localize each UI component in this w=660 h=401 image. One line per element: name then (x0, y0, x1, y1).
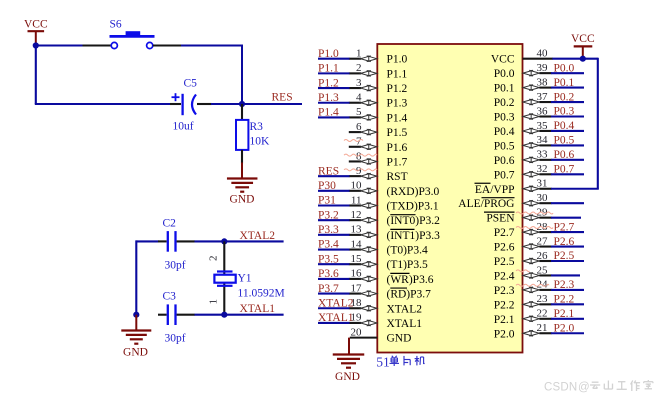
svg-text:CSDN: CSDN (544, 382, 577, 394)
svg-text:RES: RES (272, 92, 293, 104)
net label P0.5 (554, 135, 575, 147)
pin name (RD)P3.7 (387, 288, 432, 301)
pin 1 (P1.0) (349, 48, 377, 62)
pin name P0.2 (494, 97, 515, 109)
net label RES (272, 92, 293, 104)
svg-text:P0.5: P0.5 (554, 135, 575, 147)
svg-text:15: 15 (351, 253, 363, 265)
pin 35 (P0.4) (523, 120, 552, 134)
svg-text:P0.0: P0.0 (494, 68, 515, 80)
net label RES (318, 165, 339, 177)
svg-text:P0.2: P0.2 (554, 91, 575, 103)
net label P31 (318, 195, 336, 207)
net label P1.1 (318, 63, 339, 75)
svg-text:2: 2 (356, 62, 362, 74)
pin 10 ((RXD)P3.0) (349, 180, 377, 194)
svg-text:2: 2 (208, 256, 220, 262)
designator Y1 (238, 273, 252, 285)
net label P3.2 (318, 209, 339, 221)
svg-text:P1.0: P1.0 (387, 54, 408, 66)
pin 25 (P2.4) (523, 264, 552, 278)
pin 3 (P1.2) (349, 77, 377, 91)
svg-text:P2.3: P2.3 (494, 285, 515, 297)
pin name P2.5 (494, 256, 515, 268)
svg-text:P0.7: P0.7 (554, 164, 575, 176)
pin name P2.2 (494, 299, 515, 311)
pin 33 (P0.6) (523, 149, 552, 163)
pin 36 (P0.3) (523, 105, 552, 119)
svg-text:P1.6: P1.6 (387, 142, 408, 154)
net label P2.1 (554, 308, 575, 320)
designator C3 (163, 291, 177, 303)
pin name P0.7 (494, 169, 515, 181)
svg-text:3: 3 (356, 77, 362, 89)
svg-text:GND: GND (123, 347, 148, 359)
wire net P0.4 (pin 35) (551, 130, 584, 132)
svg-text:P1.3: P1.3 (387, 98, 408, 110)
pin 7 (P1.6) (349, 136, 377, 150)
pin name P0.0 (494, 68, 515, 80)
wire VCC node down to C5 branch (35, 45, 171, 105)
svg-text:27: 27 (537, 235, 549, 247)
svg-text:XTAL2: XTAL2 (240, 230, 276, 242)
svg-text:14: 14 (351, 238, 363, 250)
svg-text:P2.0: P2.0 (494, 328, 515, 340)
net label P3.4 (318, 239, 339, 251)
svg-text:P0.0: P0.0 (554, 62, 575, 74)
wire net P3.7 (pin 17) (318, 293, 350, 295)
svg-text:P2.7: P2.7 (554, 221, 575, 233)
svg-text:(INT1)P3.3: (INT1)P3.3 (387, 230, 441, 242)
svg-text:40: 40 (537, 48, 549, 60)
svg-text:P2.7: P2.7 (494, 227, 515, 239)
svg-text:P1.7: P1.7 (387, 156, 408, 168)
svg-text:GND: GND (230, 194, 255, 206)
svg-text:Y1: Y1 (238, 273, 252, 285)
value 10K (250, 136, 271, 148)
pin 32 (P0.7) (523, 163, 552, 177)
pin name P1.7 (387, 156, 408, 168)
pin 27 (P2.6) (523, 235, 552, 249)
svg-text:P1.1: P1.1 (318, 63, 339, 75)
wire net P31 (pin 11) (318, 204, 350, 206)
pushbutton S6 (83, 31, 182, 48)
svg-text:P3.2: P3.2 (318, 209, 339, 221)
wire net P2.5 (pin 26) (551, 260, 584, 262)
svg-text:(INT0)P3.2: (INT0)P3.2 (387, 215, 441, 227)
pin 37 (P0.2) (523, 91, 552, 105)
pin 20 (GND) (350, 326, 378, 338)
svg-text:25: 25 (537, 264, 549, 276)
pin 40 (VCC) (523, 48, 553, 60)
junction XTAL2 node (221, 238, 227, 244)
wire RES stub (242, 103, 302, 105)
pin name P0.1 (494, 83, 515, 95)
error marker squiggle (right pin 25) (516, 270, 529, 272)
svg-text:P2.5: P2.5 (494, 256, 515, 268)
net label P3.6 (318, 268, 339, 280)
wire unnamed net (pin 29) (551, 217, 581, 219)
wire net P3.3 (pin 13) (318, 234, 350, 236)
net label P1.3 (318, 92, 339, 104)
pin 21 (P2.0) (523, 322, 552, 336)
pin 38 (P0.1) (523, 76, 552, 90)
svg-text:30pf: 30pf (165, 260, 186, 272)
designator C2 (163, 218, 177, 230)
net label P2.3 (554, 279, 575, 291)
pin name P2.4 (494, 270, 515, 282)
svg-text:XTAL2: XTAL2 (318, 297, 354, 309)
wire pin40 to VCC rail (552, 58, 598, 60)
pin 9 (RST) (349, 165, 377, 179)
svg-text:P3.7: P3.7 (318, 283, 339, 295)
svg-text:EA/VPP: EA/VPP (475, 184, 515, 196)
value 30pf (C2) (165, 260, 186, 272)
svg-text:P0.3: P0.3 (554, 106, 575, 118)
net label XTAL2 (318, 297, 354, 309)
svg-text:VCC: VCC (571, 33, 595, 45)
error marker squiggle (right pin 28) (516, 227, 553, 229)
svg-text:P0.1: P0.1 (554, 77, 575, 89)
pin name (T1)P3.5 (387, 259, 428, 271)
power port VCC (MCU) (571, 33, 595, 59)
svg-text:11: 11 (351, 194, 362, 206)
net label P2.0 (554, 322, 575, 334)
wire net P0.6 (pin 33) (551, 159, 584, 161)
wire net P2.3 (pin 24) (551, 289, 584, 291)
net label XTAL2 (240, 230, 276, 242)
svg-text:P1.2: P1.2 (318, 77, 339, 89)
svg-text:10uf: 10uf (173, 121, 194, 133)
svg-text:(T0)P3.4: (T0)P3.4 (387, 245, 428, 257)
pin name XTAL2 (387, 303, 423, 315)
pin number 2 (Y1) (208, 256, 220, 262)
svg-text:P0.3: P0.3 (494, 112, 515, 124)
net label XTAL1 (240, 303, 276, 315)
junction XTAL1 node (221, 312, 227, 318)
svg-text:P2.6: P2.6 (494, 242, 515, 254)
pin 5 (P1.4) (349, 106, 377, 120)
svg-text:XTAL1: XTAL1 (240, 303, 276, 315)
svg-text:P2.6: P2.6 (554, 236, 575, 248)
pin number 1 (Y1) (208, 299, 220, 305)
wire C2 to XTAL2 (195, 240, 284, 242)
wire net P1.1 (pin 2) (318, 72, 350, 74)
pin name P2.3 (494, 285, 515, 297)
svg-text:P1.5: P1.5 (387, 127, 408, 139)
wire net P1.0 (pin 1) (318, 58, 350, 60)
svg-text:39: 39 (537, 62, 549, 74)
net label P2.7 (554, 221, 575, 233)
svg-text:38: 38 (537, 76, 549, 88)
pin name (WR)P3.6 (387, 273, 434, 286)
IC 51 MCU body (377, 44, 522, 353)
svg-text:P0.2: P0.2 (494, 97, 515, 109)
svg-text:P0.6: P0.6 (494, 155, 515, 167)
wire net P30 (pin 10) (318, 190, 350, 192)
junction RES node (239, 101, 245, 107)
pin name (INT0)P3.2 (387, 215, 441, 228)
wire net P2.1 (pin 22) (551, 318, 584, 320)
svg-text:ALE/PROG: ALE/PROG (458, 198, 514, 210)
pin name EA/VPP (475, 183, 515, 196)
wire VCC node to S6 (36, 44, 83, 46)
value 11.0592M (238, 288, 285, 300)
wire VCC rail down to pin31 (551, 58, 599, 189)
svg-text:12: 12 (351, 209, 362, 221)
svg-text:5: 5 (356, 106, 362, 118)
wire net P3.6 (pin 16) (318, 278, 350, 280)
error marker squiggle (right pin 24) (516, 284, 549, 286)
wire net P2.0 (pin 21) (551, 332, 584, 334)
pin 17 ((RD)P3.7) (349, 282, 377, 296)
ground GND (MCU pin 20) (333, 338, 365, 383)
svg-text:P1.4: P1.4 (318, 107, 339, 119)
pin name P0.4 (494, 126, 515, 138)
svg-text:XTAL1: XTAL1 (387, 318, 423, 330)
pin name (RXD)P3.0 (387, 186, 440, 198)
svg-text:30: 30 (537, 192, 549, 204)
pin name P1.1 (387, 68, 408, 80)
wire net XTAL2 (pin 18) (318, 307, 350, 309)
pin name P2.7 (494, 227, 515, 239)
svg-text:11.0592M: 11.0592M (238, 288, 285, 300)
pin name P2.1 (494, 314, 515, 326)
svg-text:1: 1 (356, 48, 362, 60)
svg-text:P3.4: P3.4 (318, 239, 339, 251)
svg-text:P2.0: P2.0 (554, 322, 575, 334)
pin 26 (P2.5) (523, 250, 552, 264)
svg-text:P0.1: P0.1 (494, 83, 515, 95)
pin name P1.2 (387, 83, 408, 95)
designator S6 (110, 19, 122, 31)
net label XTAL1 (318, 312, 354, 324)
pin name P1.4 (387, 112, 408, 124)
label 51 MCU (51单片机) (376, 354, 424, 369)
net label P0.3 (554, 106, 575, 118)
pin name P2.0 (494, 328, 515, 340)
svg-text:S6: S6 (110, 19, 122, 31)
pin name (T0)P3.4 (387, 245, 428, 257)
error marker squiggle (right pin 29) (516, 212, 553, 214)
pin name P2.6 (494, 242, 515, 254)
wire S6 to RES corner (181, 46, 242, 105)
pin 24 (P2.3) (523, 279, 552, 293)
svg-text:P0.6: P0.6 (554, 149, 575, 161)
svg-text:P2.2: P2.2 (554, 294, 575, 306)
svg-text:31: 31 (537, 178, 548, 190)
svg-text:(TXD)P3.1: (TXD)P3.1 (387, 201, 439, 213)
svg-text:21: 21 (537, 322, 548, 334)
svg-text:VCC: VCC (491, 54, 515, 66)
svg-text:P1.4: P1.4 (387, 112, 408, 124)
wire unnamed net (pin 25) (551, 274, 580, 276)
net label P1.2 (318, 77, 339, 89)
pin name RST (387, 171, 408, 183)
svg-text:P3.5: P3.5 (318, 253, 339, 265)
svg-text:51: 51 (376, 354, 390, 369)
net label P3.3 (318, 224, 339, 236)
svg-text:P30: P30 (318, 180, 336, 192)
wire crystal vertical (223, 241, 225, 314)
svg-text:P1.2: P1.2 (387, 83, 408, 95)
svg-text:GND: GND (335, 371, 360, 383)
svg-text:C3: C3 (163, 291, 177, 303)
wire net P1.3 (pin 4) (318, 102, 350, 104)
error marker squiggle (left pin 8) (344, 154, 377, 156)
net label P3.5 (318, 253, 339, 265)
pin name ALE/PROG (458, 198, 514, 211)
wire C3 to XTAL1 (195, 314, 284, 316)
svg-text:30pf: 30pf (165, 333, 186, 345)
capacitor C2 (158, 231, 195, 252)
resistor R3 (236, 104, 248, 164)
pin 6 (P1.5) (349, 121, 377, 135)
svg-text:(WR)P3.6: (WR)P3.6 (387, 274, 434, 286)
wire net P1.2 (pin 3) (318, 87, 350, 89)
svg-text:26: 26 (537, 250, 549, 262)
pin name P0.5 (494, 140, 515, 152)
pin 4 (P1.3) (349, 92, 377, 106)
svg-text:(RD)P3.7: (RD)P3.7 (387, 289, 432, 301)
capacitor C3 (158, 304, 195, 325)
pin 15 ((T1)P3.5) (349, 253, 377, 267)
svg-text:C2: C2 (163, 218, 177, 230)
svg-text:P3.6: P3.6 (318, 268, 339, 280)
svg-text:34: 34 (537, 134, 549, 146)
svg-text:XTAL2: XTAL2 (387, 303, 423, 315)
svg-text:P0.4: P0.4 (554, 120, 575, 132)
svg-text:1: 1 (208, 299, 220, 305)
pin 19 (XTAL1) (349, 312, 377, 326)
wire net P0.3 (pin 36) (551, 115, 584, 117)
svg-text:P0.4: P0.4 (494, 126, 515, 138)
svg-text:(RXD)P3.0: (RXD)P3.0 (387, 186, 440, 198)
svg-text:XTAL1: XTAL1 (318, 312, 354, 324)
pin 18 (XTAL2) (349, 297, 377, 311)
svg-text:RST: RST (387, 171, 408, 183)
net label P0.2 (554, 91, 575, 103)
designator R3 (250, 121, 264, 133)
junction crystal ground node (133, 312, 139, 318)
svg-text:RES: RES (318, 165, 339, 177)
wire net P2.7 (pin 28) (551, 231, 584, 233)
svg-text:C5: C5 (184, 78, 198, 90)
svg-text:(T1)P3.5: (T1)P3.5 (387, 259, 428, 271)
net label P2.6 (554, 236, 575, 248)
pin 30 (ALE/PROG) (523, 192, 552, 206)
svg-text:33: 33 (537, 149, 549, 161)
svg-text:22: 22 (537, 308, 548, 320)
svg-text:P1.0: P1.0 (318, 48, 339, 60)
pin 12 ((INT0)P3.2) (349, 209, 377, 223)
ground GND (crystal circuit) (121, 315, 151, 359)
net label P2.2 (554, 294, 575, 306)
pin name XTAL1 (387, 318, 423, 330)
wire net P0.0 (pin 39) (551, 72, 584, 74)
net label P0.0 (554, 62, 575, 74)
crystal Y1 (214, 272, 235, 286)
capacitor C5 (170, 93, 212, 115)
net label P1.4 (318, 107, 339, 119)
pin name P0.6 (494, 155, 515, 167)
wire net RES (pin 9) (318, 175, 350, 177)
wire net P3.4 (pin 14) (318, 248, 350, 250)
svg-text:VCC: VCC (24, 19, 48, 31)
wire crystal left rail (136, 240, 158, 314)
svg-text:R3: R3 (250, 121, 264, 133)
junction VCC-pin40 (580, 56, 586, 62)
svg-text:36: 36 (537, 105, 549, 117)
pin name GND (387, 333, 412, 345)
designator C5 (184, 78, 198, 90)
net label P0.7 (554, 164, 575, 176)
wire net P3.5 (pin 15) (318, 263, 350, 265)
svg-text:10K: 10K (250, 136, 271, 148)
pin name (TXD)P3.1 (387, 201, 439, 213)
net label P2.5 (554, 250, 575, 262)
net label P0.1 (554, 77, 575, 89)
watermark CSDN (544, 380, 653, 394)
wire net P0.5 (pin 34) (551, 144, 584, 146)
svg-text:GND: GND (387, 333, 412, 345)
svg-text:P0.5: P0.5 (494, 140, 515, 152)
pin 2 (P1.1) (349, 62, 377, 76)
pin 28 (P2.7) (523, 221, 552, 235)
pin name P1.3 (387, 98, 408, 110)
junction VCC node (33, 42, 39, 48)
svg-text:@: @ (578, 382, 590, 394)
pin 14 ((T0)P3.4) (349, 238, 377, 252)
svg-text:P2.3: P2.3 (554, 279, 575, 291)
svg-text:P0.7: P0.7 (494, 169, 515, 181)
net label P30 (318, 180, 336, 192)
pin name VCC (491, 54, 515, 66)
svg-text:37: 37 (537, 91, 549, 103)
svg-text:6: 6 (356, 121, 362, 133)
wire unnamed net (pin 30) (551, 202, 584, 204)
wire net P0.1 (pin 38) (551, 87, 584, 89)
wire net P0.7 (pin 32) (551, 173, 584, 175)
net label P1.0 (318, 48, 339, 60)
pin name P0.3 (494, 112, 515, 124)
pin 8 (P1.7) (349, 150, 377, 164)
pin 23 (P2.2) (523, 293, 552, 307)
pin 22 (P2.1) (523, 308, 552, 322)
net label P0.4 (554, 120, 575, 132)
pin 39 (P0.0) (523, 62, 552, 76)
svg-text:P2.4: P2.4 (494, 270, 515, 282)
error marker squiggle (left pin 9) (344, 169, 377, 171)
svg-text:P2.2: P2.2 (494, 299, 515, 311)
svg-text:23: 23 (537, 293, 549, 305)
svg-text:32: 32 (537, 163, 548, 175)
pin name P1.5 (387, 127, 408, 139)
svg-text:P3.3: P3.3 (318, 224, 339, 236)
svg-text:P2.1: P2.1 (554, 308, 575, 320)
value 30pf (C3) (165, 333, 186, 345)
svg-text:20: 20 (351, 326, 363, 338)
pin 16 ((WR)P3.6) (349, 268, 377, 282)
pin 29 (PSEN) (523, 206, 552, 220)
svg-text:16: 16 (351, 268, 363, 280)
svg-text:P2.1: P2.1 (494, 314, 515, 326)
svg-text:10: 10 (351, 180, 363, 192)
svg-text:17: 17 (351, 282, 363, 294)
pin name (INT1)P3.3 (387, 229, 441, 242)
pin name P1.0 (387, 54, 408, 66)
pin 34 (P0.5) (523, 134, 552, 148)
